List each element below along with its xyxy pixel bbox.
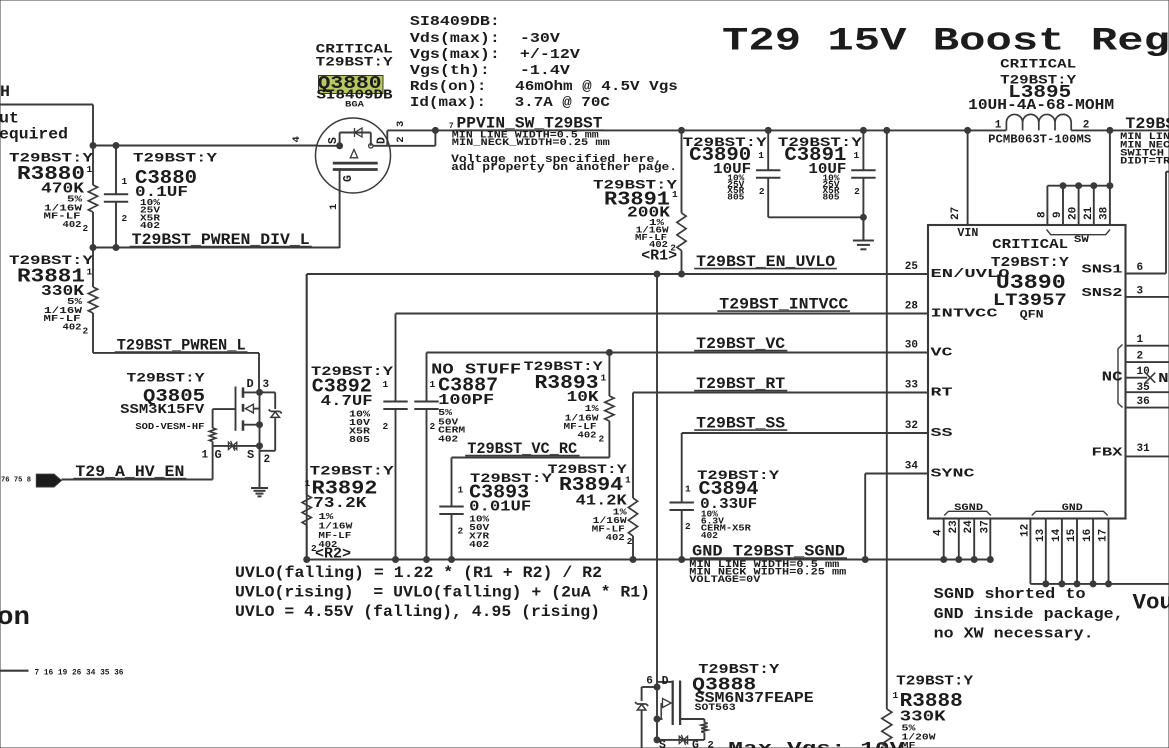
note text (clipped) 'Input required' xyxy=(0,110,68,144)
svg-text:SOD-VESM-HF: SOD-VESM-HF xyxy=(135,421,204,432)
wire net T29BST_VC_RC xyxy=(452,440,610,458)
svg-text:24: 24 xyxy=(963,520,975,534)
U3890 pin 31 FBX xyxy=(1092,443,1169,459)
transistor Q3888 N-MOSFET xyxy=(646,675,714,748)
svg-text:3: 3 xyxy=(395,121,407,127)
svg-text:T29BST:Y: T29BST:Y xyxy=(316,56,394,70)
svg-text:UVLO = 4.55V (falling), 4.95 (: UVLO = 4.55V (falling), 4.95 (rising) xyxy=(235,603,600,621)
svg-text:H: H xyxy=(0,83,10,101)
svg-text:Vout: Vout xyxy=(1133,591,1169,616)
transistor Q3880 labels with highlight xyxy=(316,43,394,110)
svg-text:T29BST:Y: T29BST:Y xyxy=(896,675,974,690)
ground (C3891) xyxy=(853,217,874,249)
note SGND properties xyxy=(689,560,846,586)
wire net PPVIN_SW_T29BST rail xyxy=(432,115,1169,134)
svg-text:2: 2 xyxy=(599,434,605,445)
svg-text:PCMB063T-100MS: PCMB063T-100MS xyxy=(988,134,1091,147)
svg-text:10UH-4A-68-MOHM: 10UH-4A-68-MOHM xyxy=(968,97,1114,114)
svg-text:GND inside package,: GND inside package, xyxy=(934,606,1124,623)
capacitor C3887 (NO STUFF) xyxy=(414,353,521,560)
svg-text:15: 15 xyxy=(1066,528,1078,542)
svg-text:T29 15V Boost Regulator: T29 15V Boost Regulator xyxy=(722,23,1169,60)
svg-text:1: 1 xyxy=(87,164,93,175)
svg-text:SGND: SGND xyxy=(954,502,983,514)
svg-text:GND: GND xyxy=(1062,502,1083,514)
capacitor C3894 xyxy=(670,469,780,560)
spec note SI8409DB characteristics xyxy=(410,14,678,111)
capacitor C3890 xyxy=(683,127,781,217)
svg-text:SS: SS xyxy=(931,426,953,440)
note voltage not specified xyxy=(451,154,677,174)
U3890 GND pins 12..17 xyxy=(1019,502,1109,584)
svg-text:Max Vgs: 10V: Max Vgs: 10V xyxy=(728,740,905,748)
svg-text:1: 1 xyxy=(430,379,436,390)
svg-text:2: 2 xyxy=(759,186,765,197)
svg-text:3: 3 xyxy=(263,379,270,391)
wire net T29BST_PWREN_L xyxy=(93,336,259,392)
transistor Q3805 N-MOSFET symbol xyxy=(202,377,271,466)
svg-text:SSM3K15FV: SSM3K15FV xyxy=(120,402,205,418)
svg-text:805: 805 xyxy=(727,192,744,203)
svg-text:6: 6 xyxy=(1137,262,1144,274)
svg-text:SW: SW xyxy=(1074,235,1089,246)
svg-text:Vgs(th): -1.4V: Vgs(th): -1.4V xyxy=(410,63,571,79)
svg-text:23: 23 xyxy=(948,520,960,534)
svg-text:9: 9 xyxy=(1052,211,1064,218)
off-page reference numbers 76 75 8 xyxy=(1,477,31,485)
svg-text:T29BST:Y: T29BST:Y xyxy=(127,372,206,386)
wire SYNC to SGND xyxy=(865,474,928,560)
svg-text:EN/UVLO: EN/UVLO xyxy=(931,267,1010,281)
resistor R3888 xyxy=(882,675,974,748)
wire net T29BST_SS xyxy=(682,415,928,503)
ground (Q3805 source) xyxy=(251,451,268,497)
svg-text:FBX: FBX xyxy=(1092,445,1124,459)
svg-text:SOT563: SOT563 xyxy=(695,703,736,714)
svg-text:D: D xyxy=(247,377,254,391)
wire GND rail to right edge xyxy=(1030,581,1169,587)
svg-text:T29BST:Y: T29BST:Y xyxy=(310,465,395,479)
svg-text:<R1>: <R1> xyxy=(641,248,677,265)
wire C3890 bottom to C3891 xyxy=(768,214,866,220)
svg-text:3: 3 xyxy=(1137,285,1144,297)
svg-text:12: 12 xyxy=(1019,524,1031,537)
note Vout (clipped) xyxy=(1133,591,1169,616)
svg-text:SI8409DB:: SI8409DB: xyxy=(410,14,500,30)
svg-text:T29BS: T29BS xyxy=(1125,115,1169,133)
wire top rail to Q3880 source xyxy=(90,143,318,149)
svg-text:VOLTAGE=0V: VOLTAGE=0V xyxy=(689,575,760,586)
svg-text:33: 33 xyxy=(905,380,919,392)
capacitor C3892 xyxy=(311,314,408,560)
U3890 pin 25 EN/UVLO xyxy=(905,261,1010,281)
svg-text:32: 32 xyxy=(905,420,918,432)
transistor Q3805 labels xyxy=(120,372,205,433)
svg-text:2: 2 xyxy=(1137,351,1144,363)
gate-source diode of Q3888 xyxy=(657,735,704,745)
svg-text:SNS2: SNS2 xyxy=(1082,286,1123,300)
svg-text:2: 2 xyxy=(854,186,860,197)
svg-text:LT3957: LT3957 xyxy=(993,291,1067,311)
svg-text:2: 2 xyxy=(83,223,89,234)
wire net T29BST_EN_UVLO xyxy=(307,253,928,277)
U3890 pin 30 VC xyxy=(905,340,953,360)
svg-text:25: 25 xyxy=(905,261,919,273)
U3890 pin 33 RT xyxy=(905,380,953,400)
svg-text:SNS1: SNS1 xyxy=(1082,263,1123,277)
resistor R3891 xyxy=(593,127,686,277)
svg-text:VIN: VIN xyxy=(957,227,978,240)
resistor R3880 xyxy=(9,146,98,248)
svg-text:31: 31 xyxy=(1137,443,1151,455)
wire net T29BST_VC xyxy=(427,335,929,353)
U3890 pin 27 VIN xyxy=(950,130,978,240)
inductor L3895 labels xyxy=(968,58,1114,147)
svg-text:1: 1 xyxy=(601,373,607,384)
svg-text:D: D xyxy=(662,675,669,688)
note UVLO formulas xyxy=(235,564,650,621)
transistor Q3888 labels xyxy=(692,663,814,714)
U3890 pin 32 SS xyxy=(905,420,953,440)
svg-text:1: 1 xyxy=(305,478,311,489)
svg-text:76 75 8: 76 75 8 xyxy=(1,477,31,485)
zener diode (Q3805 D-S) xyxy=(260,392,282,450)
wire net T29BST_INTVCC xyxy=(396,296,929,314)
wire net T29BST_RT xyxy=(633,375,928,393)
wire net T29_A_HV_EN xyxy=(62,446,213,481)
svg-text:402: 402 xyxy=(578,430,597,441)
svg-text:G: G xyxy=(342,175,355,182)
svg-text:1: 1 xyxy=(328,204,340,210)
svg-text:37: 37 xyxy=(979,520,991,533)
resistor R3892 xyxy=(302,274,394,563)
svg-text:1: 1 xyxy=(458,485,464,496)
svg-text:27: 27 xyxy=(950,207,962,220)
svg-text:2: 2 xyxy=(395,136,407,142)
note 'on' text fragment at left edge xyxy=(0,602,30,632)
svg-text:Vgs(max): +/-12V: Vgs(max): +/-12V xyxy=(410,47,581,63)
svg-text:1: 1 xyxy=(995,120,1002,132)
svg-text:BGA: BGA xyxy=(345,101,364,110)
svg-text:RT: RT xyxy=(931,386,953,400)
wire PPVIN down to R3888 xyxy=(884,127,890,707)
svg-text:2: 2 xyxy=(708,740,714,748)
svg-text:CRITICAL: CRITICAL xyxy=(1000,58,1076,72)
svg-text:1: 1 xyxy=(122,176,128,187)
svg-text:4: 4 xyxy=(291,136,303,142)
svg-text:1: 1 xyxy=(202,450,209,462)
U3890 pin 3 SNS2 xyxy=(1082,285,1169,300)
svg-text:4.7UF: 4.7UF xyxy=(321,393,373,410)
svg-text:2: 2 xyxy=(627,536,633,547)
svg-text:402: 402 xyxy=(63,219,82,230)
svg-text:73.2K: 73.2K xyxy=(313,495,366,512)
note min width properties xyxy=(452,130,610,149)
svg-text:402: 402 xyxy=(438,433,458,444)
svg-text:17: 17 xyxy=(1098,529,1110,542)
transistor Q3880 P-MOSFET in circle xyxy=(291,118,391,248)
svg-text:1: 1 xyxy=(625,475,631,486)
svg-text:20: 20 xyxy=(1068,207,1080,220)
zener diode (Q3888) xyxy=(635,687,657,748)
svg-text:2: 2 xyxy=(383,421,389,432)
svg-text:38: 38 xyxy=(1099,206,1111,220)
svg-text:402: 402 xyxy=(606,532,625,543)
svg-text:CRITICAL: CRITICAL xyxy=(316,43,393,57)
note Max Vgs xyxy=(728,740,905,748)
svg-text:Id(max): 3.7A @ 70C: Id(max): 3.7A @ 70C xyxy=(410,95,611,111)
svg-text:2: 2 xyxy=(430,421,436,432)
svg-text:1: 1 xyxy=(1137,334,1144,346)
inductor L3895 xyxy=(965,114,1113,133)
svg-text:2: 2 xyxy=(458,526,464,537)
svg-text:NC: NC xyxy=(1158,371,1169,387)
svg-text:36: 36 xyxy=(1137,396,1150,408)
svg-text:1: 1 xyxy=(854,150,860,161)
svg-text:add property on another page.: add property on another page. xyxy=(451,162,677,174)
svg-text:402: 402 xyxy=(63,321,82,332)
U3890 pin 6 SNS1 xyxy=(1082,172,1169,277)
svg-text:QFN: QFN xyxy=(1020,310,1044,322)
svg-text:VC: VC xyxy=(931,346,953,360)
svg-text:34: 34 xyxy=(905,461,919,473)
svg-text:G: G xyxy=(215,448,222,462)
svg-text:402: 402 xyxy=(140,220,160,231)
svg-text:1: 1 xyxy=(685,484,691,495)
svg-text:NC: NC xyxy=(1102,370,1124,386)
wire EN_UVLO down to Q3888 drain xyxy=(656,274,658,687)
wire net T29BST SW label at right edge xyxy=(1120,115,1169,168)
svg-text:INTVCC: INTVCC xyxy=(931,307,998,321)
svg-text:35: 35 xyxy=(1137,382,1151,394)
note SGND shorted to GND xyxy=(934,586,1124,643)
svg-text:30: 30 xyxy=(905,340,918,352)
resistor R3881 xyxy=(9,248,98,353)
svg-text:equired: equired xyxy=(0,126,68,144)
svg-text:1: 1 xyxy=(87,267,93,278)
svg-text:2: 2 xyxy=(122,213,128,224)
svg-text:2: 2 xyxy=(1083,120,1090,132)
svg-text:7 16 19 26 34 35 36: 7 16 19 26 34 35 36 xyxy=(35,669,124,678)
svg-text:CRITICAL: CRITICAL xyxy=(992,238,1068,253)
svg-text:13: 13 xyxy=(1035,528,1047,542)
svg-text:1: 1 xyxy=(893,690,899,701)
gate resistor of Q3888 xyxy=(680,719,708,740)
svg-text:Vds(max): -30V: Vds(max): -30V xyxy=(410,31,561,47)
svg-text:MIN_NECK_WIDTH=0.25 mm: MIN_NECK_WIDTH=0.25 mm xyxy=(452,138,610,149)
svg-text:SYNC: SYNC xyxy=(931,467,975,481)
gate-source diode of Q3805 xyxy=(213,441,260,451)
svg-text:1: 1 xyxy=(758,150,764,161)
svg-text:S: S xyxy=(327,137,340,144)
svg-text:SGND shorted to: SGND shorted to xyxy=(934,586,1086,603)
svg-text:10: 10 xyxy=(1137,366,1150,378)
svg-text:1: 1 xyxy=(383,379,389,390)
svg-text:6: 6 xyxy=(646,676,653,688)
svg-text:S: S xyxy=(247,448,254,462)
wire Q3880 drain to PPVIN rail (pins 2,3) xyxy=(373,121,435,146)
svg-text:28: 28 xyxy=(905,301,919,313)
svg-text:UVLO(falling) = 1.22 * (R1 + R: UVLO(falling) = 1.22 * (R1 + R2) / R2 xyxy=(235,564,602,582)
svg-text:T29BST:Y: T29BST:Y xyxy=(133,152,218,166)
svg-text:DIDT=TR: DIDT=TR xyxy=(1120,157,1169,168)
U3890 NC pins 1,2,10,35,36 xyxy=(1102,334,1169,408)
wire net H (input) from left edge xyxy=(0,83,93,146)
capacitor C3880 xyxy=(104,146,218,248)
svg-text:IN: IN xyxy=(39,478,52,487)
svg-text:2: 2 xyxy=(685,521,691,532)
op-amp U3890 IC body LT3957 xyxy=(928,225,1126,519)
U3890 pin 34 SYNC xyxy=(905,461,975,481)
U3890 pin 28 INTVCC xyxy=(905,301,998,321)
off-page line with numbers xyxy=(0,669,124,678)
resistor R3894 xyxy=(548,393,638,560)
svg-text:402: 402 xyxy=(469,539,489,550)
wire net T29BST_PWREN_DIV_L xyxy=(90,231,340,251)
svg-text:14: 14 xyxy=(1051,528,1063,542)
capacitor C3893 xyxy=(439,458,552,560)
U3890 SGND pins 4,23,24,37 xyxy=(933,502,994,563)
wire net GND T29BST_SGND rail xyxy=(304,543,991,563)
title T29 15V Boost Regulator xyxy=(722,23,1169,60)
svg-text:Rds(on): 46mOhm @ 4.5V Vgs: Rds(on): 46mOhm @ 4.5V Vgs xyxy=(410,79,678,95)
svg-text:no XW necessary.: no XW necessary. xyxy=(934,626,1094,643)
svg-text:402: 402 xyxy=(701,531,718,541)
svg-text:21: 21 xyxy=(1083,206,1095,220)
svg-text:805: 805 xyxy=(349,434,371,445)
gate resistor of Q3805 xyxy=(209,409,235,446)
svg-text:805: 805 xyxy=(823,192,840,203)
capacitor C3891 xyxy=(778,127,876,240)
svg-text:MF: MF xyxy=(902,740,917,748)
svg-text:16: 16 xyxy=(1082,529,1094,542)
svg-text:8: 8 xyxy=(1037,211,1049,218)
svg-text:2: 2 xyxy=(264,454,271,466)
svg-text:2: 2 xyxy=(83,326,89,337)
svg-text:UVLO(rising) = UVLO(falling): UVLO(rising) = UVLO(falling) + (2uA * R1… xyxy=(235,584,650,602)
input port flag IN xyxy=(36,474,61,487)
U3890 SW pins 8,9,20,21,38 xyxy=(1037,130,1113,246)
resistor R3893 xyxy=(524,350,614,458)
svg-text:1: 1 xyxy=(672,189,678,200)
svg-text:4: 4 xyxy=(933,529,945,536)
svg-text:on: on xyxy=(0,602,30,632)
